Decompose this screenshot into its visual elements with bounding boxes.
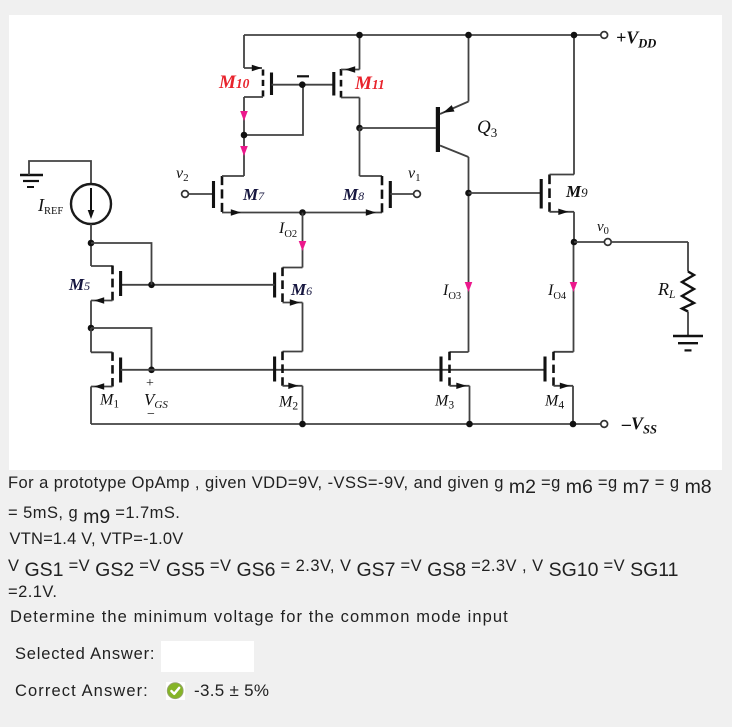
svg-text:M10: M10 bbox=[218, 72, 250, 93]
svg-text:M11: M11 bbox=[354, 73, 385, 94]
svg-text:−: − bbox=[147, 407, 155, 422]
svg-text:M9: M9 bbox=[565, 182, 588, 201]
svg-text:+: + bbox=[146, 376, 154, 391]
